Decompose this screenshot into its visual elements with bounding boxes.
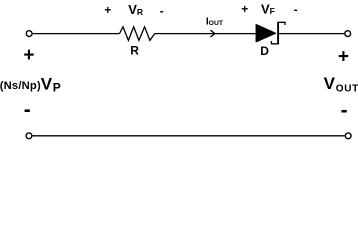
resistor R (zigzag) <box>120 27 155 41</box>
current arrow <box>211 30 215 37</box>
svg-text:-: - <box>160 4 164 18</box>
terminal bottom-left <box>26 133 32 139</box>
schottky top hook <box>278 22 285 25</box>
terminal top-right <box>345 31 351 37</box>
wire diode to terminal top-right <box>279 33 345 35</box>
svg-text:D: D <box>260 44 269 58</box>
svg-text:+: + <box>23 45 34 66</box>
wire top-left (terminal to resistor) <box>33 33 120 35</box>
wire resistor to diode <box>155 33 257 35</box>
svg-text:-: - <box>341 99 348 122</box>
svg-text:-: - <box>294 3 298 17</box>
diode cathode bar <box>277 22 279 45</box>
bottom return wire <box>33 135 345 137</box>
svg-text:R: R <box>130 44 139 58</box>
svg-text:+: + <box>104 3 111 17</box>
svg-text:+: + <box>241 2 248 16</box>
schottky bottom hook <box>271 41 278 44</box>
svg-text:(Ns/Np): (Ns/Np) <box>0 80 41 92</box>
terminal top-left <box>26 31 32 37</box>
svg-text:+: + <box>338 46 349 67</box>
diode D (schottky) anode triangle <box>256 25 276 42</box>
svg-text:-: - <box>24 98 31 121</box>
terminal bottom-right <box>345 133 351 139</box>
